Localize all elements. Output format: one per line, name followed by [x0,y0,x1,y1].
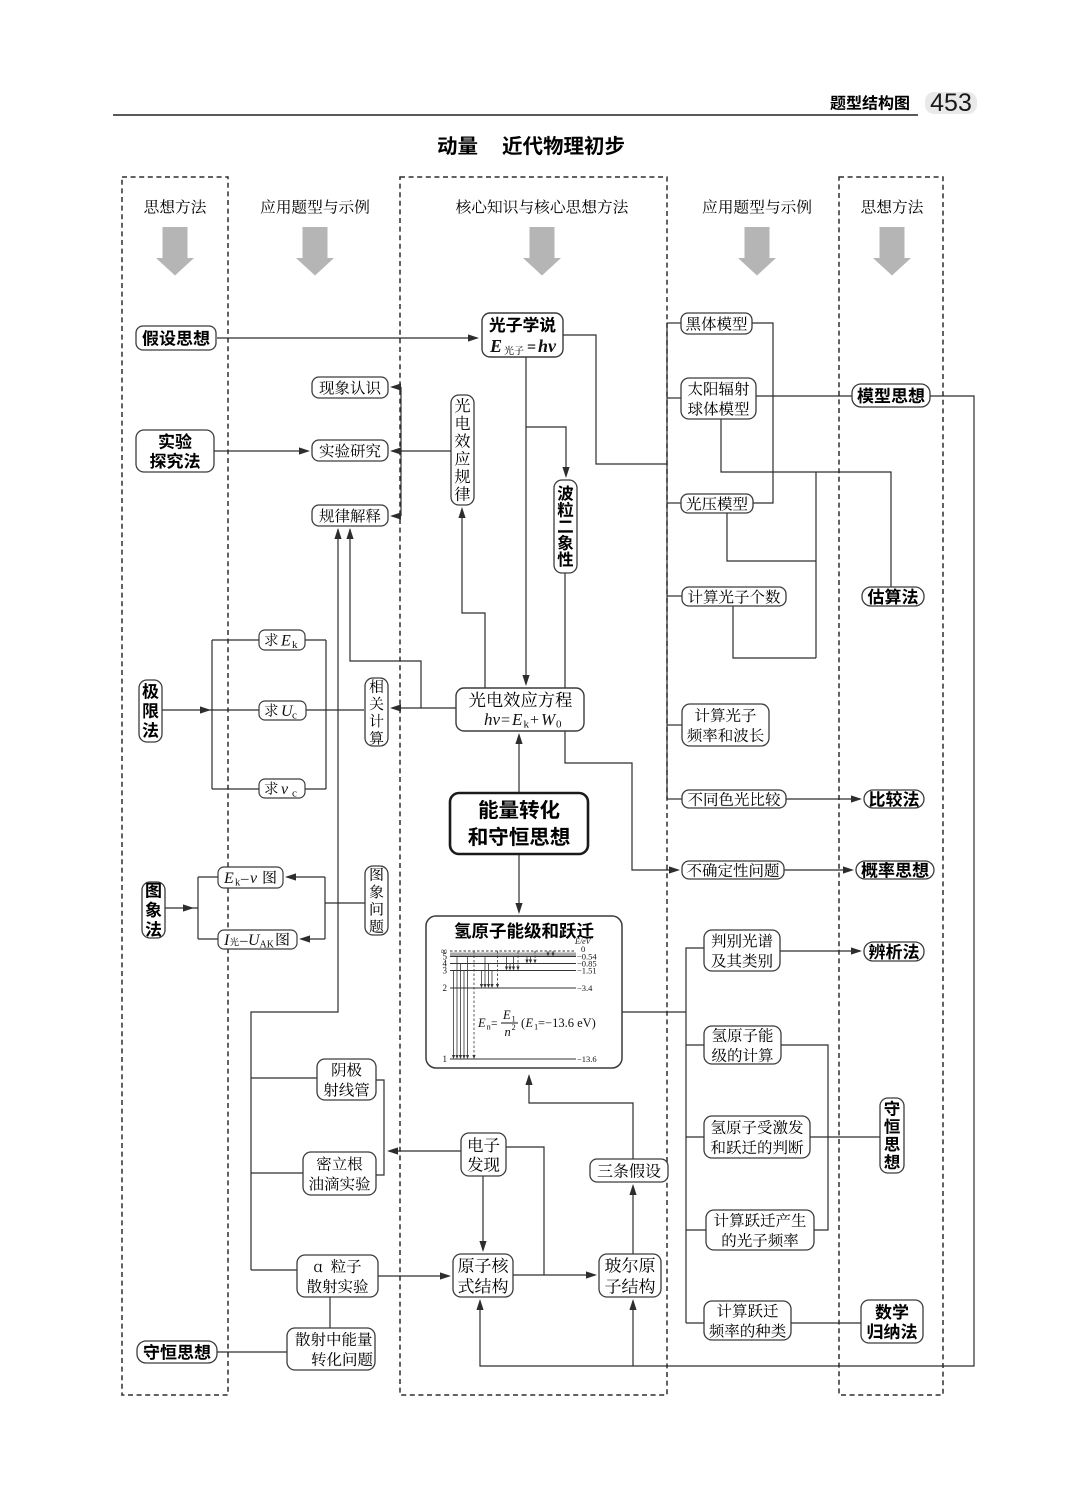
svg-text:=: = [491,1018,498,1030]
svg-text:+: + [530,712,539,729]
svg-text:2: 2 [512,1022,516,1032]
svg-text:=−13.6 eV): =−13.6 eV) [538,1016,596,1030]
svg-text:hν: hν [538,336,557,356]
svg-text:W: W [541,710,557,729]
svg-text:0: 0 [556,719,562,731]
svg-text:k: k [524,719,530,731]
svg-text:3: 3 [443,966,448,976]
svg-text:n: n [505,1025,511,1039]
svg-text:E: E [525,1016,534,1030]
svg-text:hν: hν [484,710,501,729]
svg-text:E: E [280,633,291,650]
svg-text:AK: AK [260,940,275,951]
svg-text:–: – [239,933,248,949]
svg-text:E: E [511,710,523,729]
svg-text:–: – [240,871,249,887]
svg-text:−1.51: −1.51 [577,966,597,976]
svg-text:E: E [477,1016,486,1030]
svg-text:E: E [489,336,502,356]
svg-text:c: c [292,710,297,722]
svg-text:=: = [527,339,536,356]
svg-text:2: 2 [443,983,448,993]
svg-text:k: k [292,639,298,651]
svg-text:−13.6: −13.6 [577,1054,597,1064]
svg-text:I: I [223,932,230,949]
svg-text:c: c [292,788,297,800]
svg-text:453: 453 [930,89,972,117]
svg-text:v: v [281,781,289,798]
svg-text:E: E [223,870,234,887]
svg-text:=: = [501,712,510,729]
svg-text:E: E [502,1008,511,1022]
svg-text:−3.4: −3.4 [577,983,593,993]
svg-text:1: 1 [443,1054,448,1064]
svg-text:v: v [250,870,258,887]
